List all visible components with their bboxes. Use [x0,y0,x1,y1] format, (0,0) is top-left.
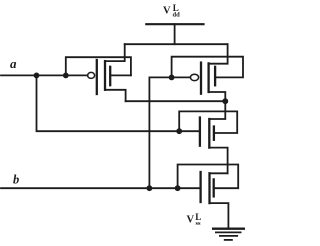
M2 gate bubble [190,74,198,80]
wire: a upper branch up, over, down to M1 bulk lead [66,57,131,75]
M1 source lead to Vdd line [105,44,125,61]
M3 channel plate [208,119,210,148]
M3 source lead down to M4 drain [209,148,227,174]
wire: M3 bulk return up and over to gate net [179,111,237,133]
svg-text:a: a [10,56,17,71]
svg-text:ss: ss [196,220,202,227]
junction on b wire (riser to M2) [147,185,153,191]
node b label [13,173,19,187]
wire: a lower branch down and right to M3 gate [37,75,200,131]
junction on b wire (M4 bulk return) [175,185,181,191]
M1 gate bubble [88,72,95,78]
junction on a wire (to upper branch) [63,73,69,79]
junction on a wire (to lower branch) [34,73,40,79]
M4 source lead down to ground [210,203,229,229]
M2 drain lead to output node [209,92,226,101]
svg-text:V: V [163,6,171,17]
wire: b riser to M2 gate [149,77,190,188]
M3 gate bar [199,118,201,146]
wire: input a horizontal [1,74,88,76]
M1 drain lead down [105,90,126,101]
supply VLdd rail [146,23,203,25]
transistor M2 (pMOS, input b) [190,44,227,101]
wire: output node down to M3 drain [209,101,225,119]
svg-text:V: V [187,215,195,226]
svg-text:dd: dd [173,12,181,19]
ground symbol [213,229,244,240]
M1 bulk lead [110,74,131,76]
wire: Vdd rail stem [174,24,176,44]
wire: M4 bulk return up and over to gate net [178,165,239,189]
M2 source lead to Vdd line [209,44,228,64]
transistor M4 (nMOS, input b) [201,172,229,229]
M4 bulk bar [213,179,215,196]
M2 channel plate [207,63,209,92]
svg-text:b: b [13,173,19,187]
junction on M3 gate wire [176,128,182,134]
wire: Vdd horizontal line [125,43,228,45]
supply VLss label [187,212,202,227]
transistor M1 (pMOS, input a) [88,44,131,101]
wire: M1 drain to output node [126,100,226,102]
wire: input b horizontal [1,187,201,189]
M1 bulk bar [109,67,111,85]
M4 gate bar [199,172,201,202]
wire: M2 bulk return up and over to gate net [172,57,243,78]
M1 channel plate [104,61,106,90]
M3 bulk bar [213,127,215,140]
junction output node [222,98,228,104]
junction on M2 gate wire [169,75,175,81]
M2 bulk bar [214,67,216,86]
M1 gate bar [96,60,98,94]
node a label [10,56,17,71]
supply VLdd label [163,3,180,19]
M4 drain lead up to M3 [210,172,228,174]
M4 channel plate [208,173,210,203]
M2 gate bar [200,63,202,94]
transistor M3 (nMOS, input a) [200,118,228,174]
